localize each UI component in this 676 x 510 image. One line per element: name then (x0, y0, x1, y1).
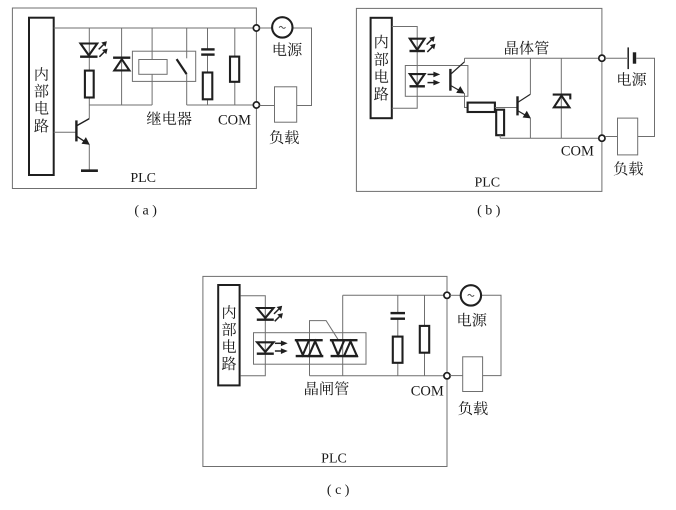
transistor Q2 (b) (518, 94, 531, 118)
base resistor horizontal (b) (468, 103, 495, 112)
LED indicator (b) (410, 39, 425, 51)
snubber capacitor (a) (201, 49, 214, 54)
svg-text:COM: COM (218, 112, 251, 128)
wire: terminal to AC source (c) (450, 294, 461, 296)
wire: terminal to battery (b) (605, 57, 627, 59)
wire: flyback diode branch (a) (121, 28, 123, 105)
output terminal (a) (253, 25, 259, 31)
wire: gate network (c) (310, 321, 339, 376)
LED light arrows (a) (99, 41, 108, 57)
load box (a) (275, 87, 297, 122)
wire: battery to right rail down to load (b) (636, 58, 654, 136)
wire: snubber branch upper (c) (397, 295, 399, 313)
svg-text:COM: COM (561, 143, 594, 159)
wire: top rail (c) (343, 294, 447, 296)
wire: transistor base wire (a) (54, 131, 76, 133)
AC source 电源 (c) (461, 285, 481, 305)
svg-text:COM: COM (411, 384, 444, 400)
optocoupler light arrows (c) (275, 341, 288, 355)
wire: pull-down resistor to bottom rail (b) (499, 135, 501, 138)
wire: phototransistor emitter down (b) (465, 93, 468, 108)
wire: Q2 emitter to bottom rail (b) (529, 118, 531, 138)
AC source 电源 (a) (272, 17, 292, 37)
label 负载 (c) (458, 401, 472, 415)
wire: COM terminal to load (b) (605, 136, 618, 138)
label 晶闸管 (305, 382, 318, 396)
pull-down resistor (b) (496, 110, 504, 136)
wire: Q2 collector to top rail (b) (529, 58, 531, 94)
internal circuit block 内部电路 (c) (218, 285, 239, 385)
wire: terminal to AC source (a) (260, 27, 273, 29)
svg-text:PLC: PLC (474, 176, 500, 191)
relay coil rectangle (a) (139, 60, 167, 75)
svg-text:( b ): ( b ) (477, 204, 501, 219)
wire: top rail (a) (54, 27, 257, 29)
wire: zener branch (b) (560, 58, 562, 138)
wire: AC source to right rail (a) (292, 28, 311, 106)
wire: LED/transistor branch (a) (88, 28, 90, 119)
svg-text:PLC: PLC (321, 451, 347, 466)
label 负载 (a) (270, 130, 284, 144)
label 电源 (a) (274, 42, 287, 56)
wire: phototransistor collector to top rail (b) (464, 58, 466, 62)
optocoupler light arrows (b) (428, 72, 441, 86)
relay contact blade (a) (177, 59, 187, 74)
PLC enclosure box (a) (12, 8, 256, 189)
phototransistor (b) (450, 62, 464, 94)
load box (b) (618, 118, 638, 155)
bleeder resistor (a) (230, 57, 239, 82)
svg-text:PLC: PLC (130, 171, 156, 186)
wire: contact branch lower (a) (186, 74, 188, 105)
bleeder resistor (c) (420, 326, 429, 353)
optocoupler LED (c) (257, 342, 274, 353)
optocoupler box (b) (405, 66, 468, 97)
snubber capacitor (c) (391, 313, 406, 319)
LED light arrows (b) (427, 36, 436, 52)
internal circuit block 内部电路 (a) (29, 18, 54, 175)
snubber resistor (a) (203, 73, 213, 100)
wire: snubber branch upper (a) (207, 28, 209, 49)
wire: main triac branch (c) (342, 295, 344, 376)
wire: LED drive loop (b) (392, 27, 417, 109)
output terminal (b) (599, 55, 605, 61)
COM terminal (a) (253, 102, 259, 108)
wire: resistor to base (b) (495, 107, 517, 109)
wire: resistor branch (a) (234, 28, 236, 105)
output terminal (c) (444, 292, 450, 298)
snubber resistor (c) (393, 337, 403, 363)
wire: top rail (b) (465, 57, 602, 59)
label 晶体管 (505, 41, 518, 55)
wire: AC source to right rail (c) (481, 295, 501, 375)
zener diode (b) (553, 95, 571, 108)
wire: LED drive loop (c) (240, 296, 265, 376)
main triac (c) (330, 340, 358, 356)
ground (a) (81, 169, 98, 172)
COM terminal (b) (599, 135, 605, 141)
label 电源 (b) (618, 72, 631, 86)
wire: COM terminal to load (c) (450, 375, 463, 377)
COM terminal (c) (444, 373, 450, 379)
PLC enclosure box (b) (356, 8, 602, 191)
opto triac (c) (295, 340, 324, 356)
wire: COM terminal to load (a) (260, 105, 275, 107)
wire: contact branch upper (a) (186, 28, 188, 58)
wire: bottom rail (c) (310, 375, 448, 377)
load box (c) (463, 357, 483, 392)
wire: bottom wire left segment (a) (89, 104, 152, 106)
label 负载 (b) (614, 161, 628, 175)
relay box (a) (132, 51, 195, 81)
PLC enclosure box (c) (203, 276, 447, 466)
wire: bottom wire right segment COM rail (a) (187, 104, 257, 106)
wire: snubber branch lower (a) (207, 55, 209, 105)
wire: emitter to ground (a) (88, 145, 90, 170)
resistor (LED series) (a) (85, 71, 94, 98)
LED indicator (c) (257, 308, 274, 320)
LED light arrows (c) (274, 306, 283, 322)
wire: relay coil branch (a) (151, 28, 153, 105)
internal circuit block 内部电路 (b) (371, 18, 392, 118)
wire: bottom rail (b) (500, 137, 602, 139)
svg-text:( a ): ( a ) (134, 203, 157, 218)
label 电源 (c) (458, 313, 471, 327)
wire: snubber branch lower (c) (397, 319, 399, 376)
optocoupler LED (b) (410, 74, 425, 86)
wire: bleeder resistor branch (c) (424, 295, 426, 376)
optocoupler box (c) (254, 333, 367, 365)
flyback diode (a) (113, 58, 130, 71)
svg-text:( c ): ( c ) (327, 483, 350, 498)
battery 电源 (b) (628, 47, 634, 69)
transistor Q1 (a) (76, 119, 89, 145)
LED indicator (a) (80, 44, 97, 57)
relay label 继电器 (147, 111, 161, 125)
